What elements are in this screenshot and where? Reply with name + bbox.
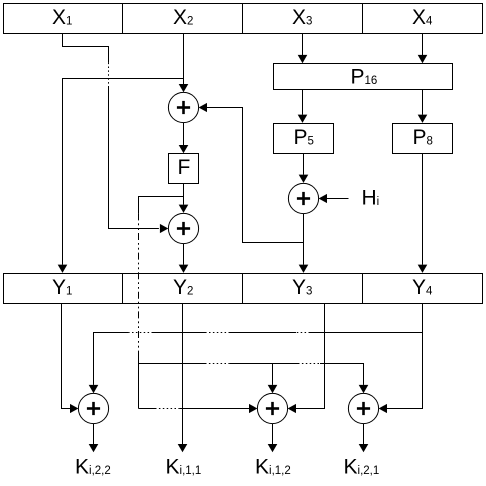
wire Hi [327, 198, 349, 200]
wire across to xor B left [139, 408, 156, 410]
wire xor U3 to Y3 [303, 214, 305, 265]
divider X2|X3 [242, 4, 244, 34]
svg-text:X2: X2 [173, 6, 193, 29]
arrow into P8 [418, 115, 428, 123]
wire xor B out [272, 424, 274, 444]
svg-text:X3: X3 [292, 6, 312, 29]
wire X2 down to xor U1 [183, 34, 185, 85]
svg-text:X1: X1 [52, 6, 72, 29]
arrow K i11 [178, 444, 188, 452]
svg-text:P5: P5 [294, 126, 314, 149]
svg-text:Ki,1,2: Ki,1,2 [255, 456, 291, 479]
arrow into xor U2 left [160, 224, 168, 233]
arrow into xor B left [249, 404, 257, 413]
box P8 [393, 124, 453, 154]
divider Y3|Y4 [362, 274, 364, 304]
wire P16 to P8 [422, 90, 424, 115]
arrow into xor A top [89, 385, 99, 393]
wire xor U1 to F [183, 123, 185, 145]
xor B [257, 393, 287, 423]
arrow into xor U1 right [199, 103, 207, 112]
svg-text:Y3: Y3 [292, 276, 312, 299]
xor U3 [288, 183, 318, 213]
wire F to xor U2 [183, 184, 185, 205]
svg-text:Y2: Y2 [173, 276, 193, 299]
arrow into Y2 [179, 265, 189, 273]
arrow into xor A left [70, 404, 78, 413]
arrow into xor B top [268, 385, 278, 393]
arrow into xor C top [359, 385, 369, 393]
arrow into xor C right [379, 404, 387, 413]
wire X1 down to xor U2 level [109, 86, 159, 229]
arrow into Y4 [418, 265, 428, 273]
register bar X1-X4 [4, 4, 483, 34]
wire xor C out [363, 424, 365, 444]
box P16 [274, 64, 453, 90]
wire P5 to xor U3 [303, 154, 305, 175]
svg-text:P16: P16 [351, 66, 378, 89]
divider Y2|Y3 [242, 274, 244, 304]
box F [169, 154, 199, 184]
wire Y4 tap across to xor A top [310, 332, 423, 334]
wire feedback from Y3 tap to xor U1 [207, 108, 304, 243]
wire F-branch across to xor C [139, 363, 206, 365]
wire xor A out [93, 424, 95, 444]
wire Y4 out to xor C right [387, 304, 423, 409]
wire P8 to Y4 [422, 154, 424, 265]
svg-text:X4: X4 [412, 6, 433, 29]
wire xor U2 to Y2 [183, 244, 185, 265]
wire dotted segment before Y2 crossing [155, 408, 180, 410]
arrow into xor U1 top [179, 84, 189, 92]
arrow into P5 [298, 115, 308, 123]
arrow K i12 [268, 444, 278, 452]
wire X2 branch to Y1 [63, 79, 184, 265]
wire Y3 out to xor B right [296, 304, 325, 409]
register bar Y1-Y4 [4, 274, 483, 304]
arrow into xor U3 right [319, 194, 327, 203]
wire X3 to P16 [302, 34, 304, 56]
arrow into xor U3 top [299, 175, 309, 183]
arrow into Y1 [58, 265, 68, 273]
divider X3|X4 [362, 4, 364, 34]
xor A [78, 393, 108, 423]
wire Y1 out to xor A left [62, 304, 71, 409]
xor C [348, 393, 378, 423]
svg-text:Ki,1,1: Ki,1,1 [166, 456, 202, 479]
wire dash-dot down across Y bar [138, 213, 140, 352]
arrow K i21 [359, 444, 369, 452]
box P5 [274, 124, 334, 154]
svg-text:Ki,2,1: Ki,2,1 [344, 456, 380, 479]
divider X1|X2 [122, 4, 124, 34]
wire P16 to P5 [302, 90, 304, 115]
arrow into xor U2 top [179, 205, 189, 213]
arrow into F top [179, 145, 189, 153]
wire X4 to P16 [422, 34, 424, 56]
arrow into xor B right [288, 404, 296, 413]
wire Y2 out straight to K i11 [182, 304, 184, 445]
arrow K i22 [89, 444, 99, 452]
arrow into Y3 [299, 265, 309, 273]
xor U1 [168, 92, 198, 122]
arrow into P16 right [418, 55, 428, 63]
xor U2 [168, 213, 198, 243]
wire into xor B left [180, 408, 249, 410]
arrow into P16 left [298, 55, 308, 63]
wire X1 dotted segment [108, 63, 110, 86]
wire branch down to xor B top [272, 364, 274, 385]
svg-text:Hi: Hi [362, 187, 380, 210]
svg-text:Ki,2,2: Ki,2,2 [75, 456, 111, 479]
svg-text:P8: P8 [413, 126, 433, 149]
svg-text:Y4: Y4 [412, 276, 433, 299]
wire X1 step down-right [63, 34, 109, 63]
svg-text:F: F [178, 156, 191, 179]
svg-text:Y1: Y1 [52, 276, 72, 299]
divider Y1|Y2 [122, 274, 124, 304]
wire dash-dot solid tail [138, 352, 140, 409]
wire F branch left [139, 197, 184, 214]
